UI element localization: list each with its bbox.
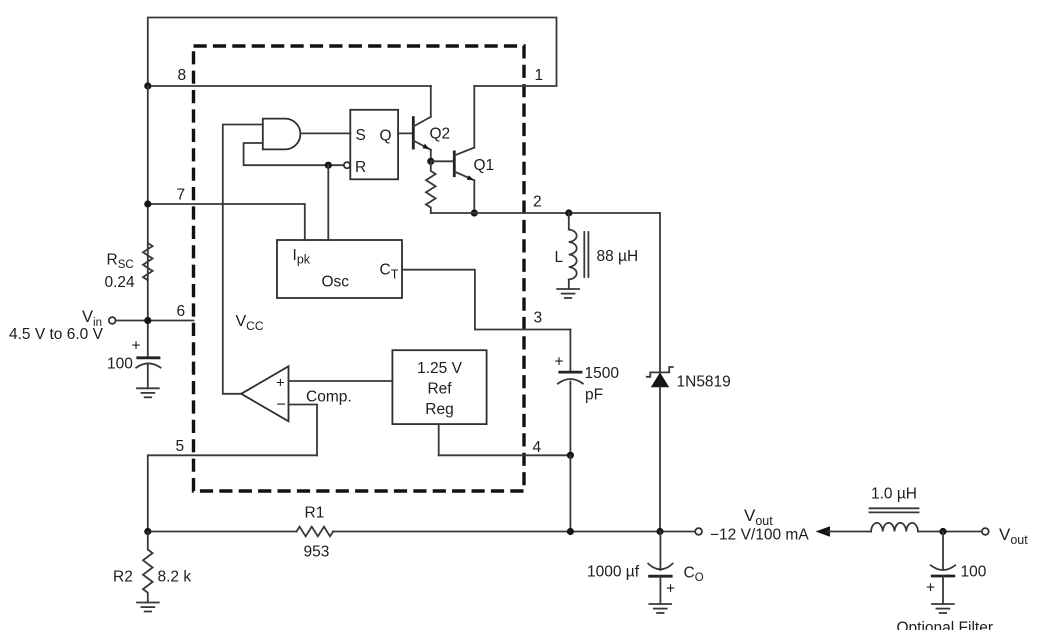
comparator (241, 366, 288, 421)
svg-text:Q1: Q1 (474, 157, 495, 174)
svg-text:Comp.: Comp. (306, 389, 352, 406)
svg-text:−12 V/100 mA: −12 V/100 mA (710, 527, 809, 544)
inductor L 88uH (555, 213, 639, 280)
svg-text:+: + (132, 338, 141, 355)
AND gate U1a (263, 119, 301, 150)
wire comparator minus input to pin5 (289, 405, 318, 456)
wire pin 2 line (431, 212, 660, 214)
node rail diode/CO (656, 528, 663, 535)
IC dashed box (194, 46, 525, 491)
svg-text:Optional Filter: Optional Filter (897, 620, 993, 630)
node bottom left junction (144, 528, 151, 535)
svg-text:6: 6 (177, 303, 186, 320)
wire pin4 down to output rail (569, 455, 571, 531)
wire CO to ground (659, 576, 661, 604)
wire left Vin rail (147, 86, 149, 358)
resistor R2 (143, 532, 153, 603)
svg-text:pF: pF (585, 387, 603, 404)
node Q1 emitter on pin2 (471, 209, 478, 216)
svg-text:1.25 V: 1.25 V (417, 360, 462, 377)
wire RefReg to pin4 line (438, 424, 440, 455)
wire Q1 emitter down to pin2 line (473, 180, 475, 213)
wire rail right of R1 (333, 531, 695, 533)
node pin4 junction (567, 452, 574, 459)
wire AND bottom input / R feedback (244, 143, 344, 165)
svg-text:1.0 µH: 1.0 µH (871, 486, 917, 503)
resistor R1 (297, 527, 334, 537)
terminal Vin open circle (109, 317, 116, 324)
wire pin 5 line (148, 455, 317, 531)
svg-text:3: 3 (534, 310, 543, 327)
svg-text:Q2: Q2 (430, 126, 451, 143)
svg-text:8: 8 (178, 67, 187, 84)
R input bubble (344, 162, 350, 168)
capacitor 100uF filter (926, 564, 987, 597)
resistor RSC (143, 243, 153, 280)
svg-text:1N5819: 1N5819 (677, 374, 731, 391)
wire comparator plus input (289, 380, 393, 382)
svg-text:Osc: Osc (322, 274, 350, 291)
svg-text:1500: 1500 (585, 365, 620, 382)
ground input cap (137, 388, 159, 397)
block 1.25V Ref Reg (392, 350, 486, 424)
wire diode bottom (659, 387, 661, 531)
node pin6 junction (144, 317, 151, 324)
wire arrow to filter inductor (828, 531, 871, 533)
svg-text:Ref: Ref (427, 381, 452, 398)
wire inductor to Vout terminal (918, 531, 982, 533)
wire R junction down to Osc (327, 165, 329, 240)
block Ipk / Osc (277, 240, 402, 298)
node pin8 junction (144, 82, 151, 89)
transistor Q2 (413, 116, 450, 150)
node filter junction (939, 528, 946, 535)
inductor 1.0uH filter (870, 486, 919, 532)
node Q2 emitter / Q1 base (427, 158, 434, 165)
wire Q2 emitter down (430, 150, 432, 162)
latch box S/R (350, 110, 398, 180)
wire cap to pin4 junction (569, 382, 571, 456)
wire AND top input from comparator output (223, 125, 263, 394)
svg-text:R: R (355, 159, 366, 176)
terminal output open circle (695, 528, 702, 535)
node rail pin4 (567, 528, 574, 535)
svg-text:953: 953 (304, 544, 330, 561)
arrow into output (816, 526, 831, 536)
svg-text:100: 100 (961, 564, 987, 581)
svg-text:8.2 k: 8.2 k (158, 569, 192, 586)
wire coil to ground (568, 280, 570, 290)
wire pin 7 line (148, 204, 305, 240)
terminal Vout right open circle (982, 528, 989, 535)
wire AND output to S (300, 132, 350, 134)
svg-text:0.24: 0.24 (105, 274, 136, 291)
capacitor 100uF input plates (136, 356, 160, 359)
svg-text:R2: R2 (113, 569, 133, 586)
wire pin3 down to CT cap (569, 330, 571, 373)
svg-text:+: + (926, 580, 935, 597)
ground filter cap (932, 604, 954, 613)
wire CT to pin3 (402, 270, 571, 330)
svg-text:L: L (555, 249, 564, 266)
wire Q1 collector up to pin1 line (473, 86, 475, 148)
diode 1N5819 wire top (659, 213, 661, 372)
transistor Q1 (454, 148, 494, 181)
svg-text:7: 7 (177, 187, 186, 204)
svg-text:Reg: Reg (425, 401, 453, 418)
node pin7 junction (144, 200, 151, 207)
wire pin 4 line (439, 454, 571, 456)
wire rail into CO cap (659, 532, 661, 571)
svg-text:Q: Q (380, 128, 392, 145)
svg-text:1000 µf: 1000 µf (587, 564, 640, 581)
wire Q output to Q2 base (398, 132, 413, 134)
capacitor CO 1000uf (587, 564, 704, 598)
svg-text:−: − (277, 397, 286, 414)
svg-text:S: S (356, 127, 366, 144)
diode 1N5819 (647, 367, 731, 391)
ground R2 (137, 603, 159, 612)
wire filter cap to ground (942, 576, 944, 604)
wire top loop from Vin rail to pin 1 (148, 18, 557, 87)
wire cap to ground (147, 365, 149, 388)
wire pin 8 line (148, 85, 431, 87)
node pin2 inductor tap (565, 209, 572, 216)
ground CO (649, 604, 671, 613)
svg-text:+: + (666, 581, 675, 598)
wire Q2 collector up to pin8 line (430, 86, 432, 117)
svg-text:5: 5 (176, 438, 185, 455)
svg-text:88 µH: 88 µH (597, 248, 639, 265)
svg-text:+: + (276, 375, 285, 392)
svg-text:+: + (555, 354, 564, 371)
svg-text:2: 2 (533, 194, 542, 211)
wire pin 6 line (116, 320, 194, 322)
svg-text:R1: R1 (305, 505, 325, 522)
svg-text:4.5 V to 6.0 V: 4.5 V to 6.0 V (9, 326, 104, 343)
svg-text:4: 4 (533, 439, 542, 456)
node R line junction (325, 162, 332, 169)
wire filter junction down (942, 532, 944, 570)
wire Q1 base (431, 160, 455, 162)
svg-text:100: 100 (107, 356, 133, 373)
wire output rail (148, 531, 297, 533)
svg-text:1: 1 (535, 67, 544, 84)
resistor Q2 base-emitter (426, 161, 436, 213)
ground inductor L (557, 289, 579, 298)
